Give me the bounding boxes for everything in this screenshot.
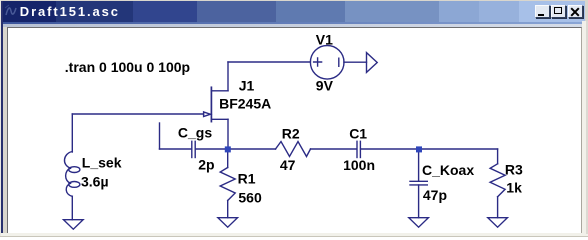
title bar icon xyxy=(3,3,20,19)
node B junction xyxy=(416,146,422,152)
resistor R2 xyxy=(276,142,311,157)
wire R2 to C1 xyxy=(311,148,357,150)
ground under C_Koax xyxy=(409,218,429,228)
svg-text:47p: 47p xyxy=(423,187,447,203)
capacitor C1 xyxy=(357,141,498,157)
wire gate horizontal xyxy=(72,113,203,115)
svg-text:C_Koax: C_Koax xyxy=(422,162,474,178)
svg-text:R3: R3 xyxy=(505,162,523,178)
svg-text:3.6µ: 3.6µ xyxy=(81,174,109,190)
svg-text:J1: J1 xyxy=(239,78,255,94)
svg-text:R2: R2 xyxy=(282,126,300,142)
transistor J1 body xyxy=(204,87,228,121)
svg-text:C1: C1 xyxy=(349,126,367,142)
svg-text:V1: V1 xyxy=(316,32,333,48)
resistor R3 xyxy=(490,149,505,218)
strips under title bar xyxy=(1,22,585,24)
wire drain top horizontal xyxy=(228,61,310,63)
wire drain vertical xyxy=(227,62,229,91)
svg-text:560: 560 xyxy=(238,189,262,205)
window frame: title bar xyxy=(1,1,585,22)
wire source vertical xyxy=(227,119,229,149)
svg-text:2p: 2p xyxy=(198,157,214,173)
svg-text:C_gs: C_gs xyxy=(178,124,212,140)
frame edges xyxy=(0,0,1,237)
ground under R3 xyxy=(488,218,508,228)
title text xyxy=(20,4,120,19)
ground under L_sek xyxy=(64,220,84,230)
svg-text:47: 47 xyxy=(280,157,296,173)
wire gate down-left vertical xyxy=(71,114,73,152)
svg-text:1k: 1k xyxy=(506,179,522,195)
capacitor C_gs xyxy=(192,141,276,157)
wire bus left segment xyxy=(160,148,192,150)
wire C_gs stub vertical xyxy=(159,123,161,149)
ground under R1 xyxy=(218,218,238,228)
svg-text:100n: 100n xyxy=(343,157,375,173)
maximize button xyxy=(551,5,566,18)
minimize button xyxy=(535,5,550,18)
resistor R1 xyxy=(220,149,235,218)
wire V1 right lead xyxy=(344,61,367,63)
svg-text:R1: R1 xyxy=(238,170,256,186)
svg-text:BF245A: BF245A xyxy=(219,95,271,111)
svg-text:L_sek: L_sek xyxy=(82,154,122,170)
node A junction xyxy=(225,146,231,152)
svg-text:9V: 9V xyxy=(316,78,334,94)
voltage source V1 xyxy=(310,46,344,80)
capacitor C_Koax xyxy=(410,149,427,218)
svg-text:.tran 0 100u 0 100p: .tran 0 100u 0 100p xyxy=(65,59,190,75)
inductor L_sek xyxy=(64,152,79,220)
ground right of V1 (rotated) xyxy=(367,53,378,73)
close button xyxy=(568,5,583,18)
